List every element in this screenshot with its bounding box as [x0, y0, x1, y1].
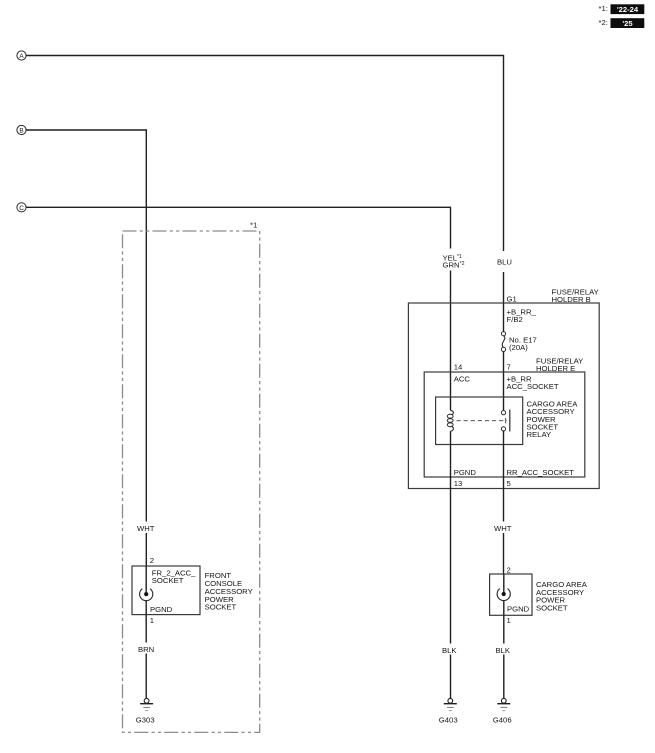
svg-text:G1: G1: [507, 294, 517, 303]
relay coil: [447, 410, 453, 431]
svg-text:G403: G403: [439, 716, 458, 725]
ground G403: [439, 698, 458, 724]
wire: relay coil pin 13 to ground G403 (BLK): [450, 431, 452, 698]
wire C: connector C down to relay coil pin 14 (YEL/GRN): [26, 207, 450, 410]
svg-text:5: 5: [507, 479, 511, 488]
svg-text:SOCKET: SOCKET: [152, 576, 184, 585]
svg-text:2: 2: [507, 565, 511, 574]
svg-text:RR_ACC_SOCKET: RR_ACC_SOCKET: [507, 468, 575, 477]
svg-text:(20A): (20A): [509, 343, 528, 352]
svg-text:G406: G406: [493, 716, 512, 725]
svg-text:BLU: BLU: [497, 257, 512, 266]
svg-text:14: 14: [454, 363, 463, 372]
svg-text:F/B2: F/B2: [507, 315, 523, 324]
svg-text:1: 1: [507, 616, 511, 625]
svg-text:*1: *1: [250, 220, 257, 229]
svg-text:SOCKET: SOCKET: [205, 603, 237, 612]
cargo area accessory power socket box: [490, 574, 532, 615]
svg-text:13: 13: [454, 479, 463, 488]
svg-text:B: B: [19, 128, 23, 135]
svg-text:BRN: BRN: [138, 645, 154, 654]
svg-text:SOCKET: SOCKET: [536, 604, 568, 613]
cargo socket symbol: [497, 574, 510, 601]
legend note 2 ('25): [599, 18, 645, 28]
svg-text:A: A: [19, 53, 24, 60]
fuse/relay holder B box: [408, 303, 599, 489]
svg-text:ACC: ACC: [454, 375, 471, 384]
wire: cargo socket pin 1 to ground G406 (BLK): [503, 601, 505, 699]
svg-text:PGND: PGND: [150, 605, 173, 614]
fuse/relay holder E box: [424, 372, 585, 477]
front console accessory power socket box: [132, 566, 200, 615]
svg-text:*2:: *2:: [599, 18, 608, 27]
svg-text:7: 7: [507, 363, 511, 372]
option box *1 (dash-dot): [123, 220, 260, 732]
svg-text:PGND: PGND: [507, 604, 530, 613]
svg-text:*1:: *1:: [599, 4, 608, 13]
svg-text:WHT: WHT: [494, 524, 512, 533]
front console socket symbol: [140, 566, 153, 601]
svg-text:C: C: [19, 205, 24, 212]
connector A: [17, 51, 26, 60]
wire B: connector B down to front console socket pin 2 (WHT): [26, 130, 146, 566]
connector B: [17, 125, 26, 134]
wire A: connector A to fuse box pin G1 (BLU): [26, 56, 503, 304]
wire: G1 through fuse to relay contact: [503, 303, 505, 411]
svg-text:'25: '25: [622, 19, 633, 28]
svg-text:PGND: PGND: [454, 468, 477, 477]
wire: relay contact pin 5 to cargo socket pin 2 (WHT): [503, 431, 505, 574]
connector C: [17, 203, 26, 212]
net +B_RR_F/B2: [507, 308, 537, 325]
svg-text:'22-24: '22-24: [617, 5, 639, 14]
net FR_2_ACC_SOCKET: [152, 568, 196, 585]
label CARGO AREA ACCESSORY POWER SOCKET: [536, 580, 588, 613]
relay contact bottom: [501, 427, 505, 431]
legend note 1 ('22-24): [599, 4, 645, 14]
relay actuation dashed link: [457, 418, 507, 423]
svg-text:HOLDER B: HOLDER B: [552, 295, 591, 304]
wire label YEL*1 / GRN*2: [443, 254, 465, 270]
svg-text:BLK: BLK: [496, 646, 511, 655]
relay blade: [509, 410, 511, 432]
svg-text:2: 2: [150, 556, 154, 565]
fuse label No. E17 (20A): [509, 335, 537, 352]
net +B_RR ACC_SOCKET: [507, 375, 559, 392]
svg-text:G303: G303: [136, 716, 155, 725]
svg-text:BLK: BLK: [442, 646, 457, 655]
svg-text:WHT: WHT: [137, 524, 155, 533]
svg-text:ACC_SOCKET: ACC_SOCKET: [507, 382, 559, 391]
ground G303: [136, 698, 155, 724]
label FUSE/RELAY HOLDER E: [536, 356, 583, 373]
svg-text:HOLDER E: HOLDER E: [536, 364, 575, 373]
wire: front console socket pin 1 to ground G303 (BRN): [145, 601, 147, 699]
label FRONT CONSOLE ACCESSORY POWER SOCKET: [205, 571, 253, 612]
relay contact top: [501, 411, 505, 415]
relay label CARGO AREA ACCESSORY POWER SOCKET RELAY: [527, 399, 579, 439]
svg-text:RELAY: RELAY: [527, 430, 552, 439]
fuse E17 (20A): [501, 332, 505, 352]
ground G406: [493, 698, 512, 724]
svg-text:1: 1: [150, 616, 154, 625]
label FUSE/RELAY HOLDER B: [552, 287, 599, 304]
relay K1 box (cargo area accessory power socket relay): [436, 397, 523, 445]
